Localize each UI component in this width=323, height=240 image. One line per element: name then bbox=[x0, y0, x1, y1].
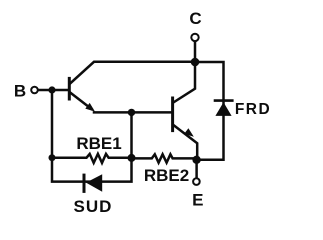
svg-text:RBE1: RBE1 bbox=[76, 134, 121, 153]
svg-text:RBE2: RBE2 bbox=[144, 166, 189, 185]
svg-text:B: B bbox=[14, 81, 26, 100]
svg-text:E: E bbox=[192, 191, 203, 210]
svg-text:SUD: SUD bbox=[74, 197, 113, 216]
svg-text:FRD: FRD bbox=[235, 101, 271, 118]
svg-text:C: C bbox=[189, 9, 201, 28]
